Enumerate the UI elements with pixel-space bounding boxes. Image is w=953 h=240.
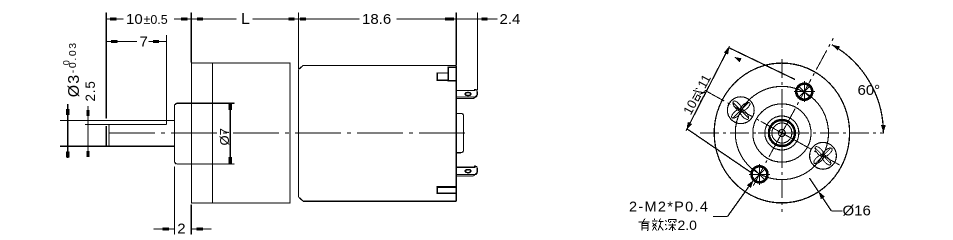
gearbox cover inner line <box>211 63 213 203</box>
side view centerline <box>109 132 468 134</box>
motor can outline <box>299 65 457 201</box>
svg-text:Ø3: Ø3 <box>66 74 83 97</box>
tapped hole M2 top-right <box>794 81 815 102</box>
shaft flat inner circle <box>772 123 792 143</box>
dimension 10或11 (hole spacing) <box>686 46 795 173</box>
shaft tip chamfer line <box>108 125 110 146</box>
extension line at flat end <box>166 35 168 124</box>
dimension 2 (hub protrusion) <box>154 167 212 238</box>
terminal tab top <box>456 90 477 99</box>
motor end cap detail bottom <box>437 187 456 193</box>
svg-text:2.5: 2.5 <box>83 80 98 101</box>
svg-text:60°: 60° <box>858 82 881 99</box>
extension line at motor can left <box>298 13 300 70</box>
end cap bearing boss <box>456 113 463 152</box>
leader Ø16 <box>810 178 843 211</box>
shaft top silhouette + ext line <box>60 119 174 121</box>
dimension 2.5 (flat height) <box>83 80 98 157</box>
tapped hole M2 bottom-left <box>749 164 770 185</box>
hub top chamfer <box>174 103 176 105</box>
dimension line 2.4 <box>440 11 520 28</box>
svg-text:Ø7: Ø7 <box>217 128 232 145</box>
hub bottom edge + Ø7 ext line <box>176 163 234 165</box>
dimension line L <box>191 11 298 28</box>
screw head cross recess upper-left <box>727 97 754 124</box>
mounting holes axis centerline <box>703 89 839 165</box>
vertical centerline <box>781 59 783 212</box>
hub top edge + Ø7 ext line <box>176 102 234 104</box>
svg-text:2: 2 <box>177 221 185 238</box>
shaft bottom silhouette + ext line <box>60 145 174 147</box>
center pilot circle <box>778 130 785 137</box>
shaft flat line + ext line <box>85 124 167 126</box>
dimension Ø3 0/-0.03 (shaft dia) <box>61 41 83 158</box>
terminal tab bottom <box>456 166 477 176</box>
dimension Ø7 <box>217 103 232 164</box>
svg-text:7: 7 <box>140 33 148 50</box>
screw head cross recess lower-right <box>810 142 837 169</box>
svg-text:0: 0 <box>61 60 71 65</box>
end view outer circle Ø16 <box>714 63 849 203</box>
collar circle <box>765 116 799 150</box>
solid centerline segments through center <box>758 132 806 134</box>
hub bottom chamfer <box>174 162 176 164</box>
svg-text:10: 10 <box>126 11 143 28</box>
extension line at gearbox front face <box>190 13 192 63</box>
motor end cap detail top <box>437 67 456 81</box>
dimension line 10±0.5 <box>106 11 191 28</box>
svg-text:±0.5: ±0.5 <box>144 13 168 27</box>
svg-text:2.4: 2.4 <box>500 11 521 28</box>
extension line at motor can right <box>455 13 457 65</box>
svg-text:18.6: 18.6 <box>362 11 391 28</box>
gearbox case <box>191 63 290 203</box>
bearing hub Ø7 left face <box>173 105 175 162</box>
10或11 text <box>680 72 714 117</box>
svg-text:L: L <box>241 11 250 28</box>
svg-text:-0.03: -0.03 <box>67 41 79 73</box>
dimension line 18.6 <box>299 11 457 28</box>
horizontal centerline <box>700 132 884 134</box>
shaft tip face <box>105 126 107 145</box>
extension line at shaft tip <box>105 13 107 119</box>
bearing hub circle Ø7 <box>753 104 811 162</box>
60 degree angular dimension arc <box>832 45 884 133</box>
dimension line 7 (flat length) <box>106 33 166 50</box>
svg-text:Ø16: Ø16 <box>843 203 871 220</box>
shaft circle Ø3 (bold) <box>769 120 795 146</box>
label 有效深2.0 <box>639 219 677 232</box>
bolt circle <box>735 86 828 179</box>
svg-text:2.0: 2.0 <box>678 217 698 233</box>
M2 holes axis centerline <box>753 38 833 186</box>
extension line at terminal tip <box>476 13 478 91</box>
svg-text:2-M2*P0.4: 2-M2*P0.4 <box>629 200 709 216</box>
leader 2-M2 <box>713 180 754 217</box>
